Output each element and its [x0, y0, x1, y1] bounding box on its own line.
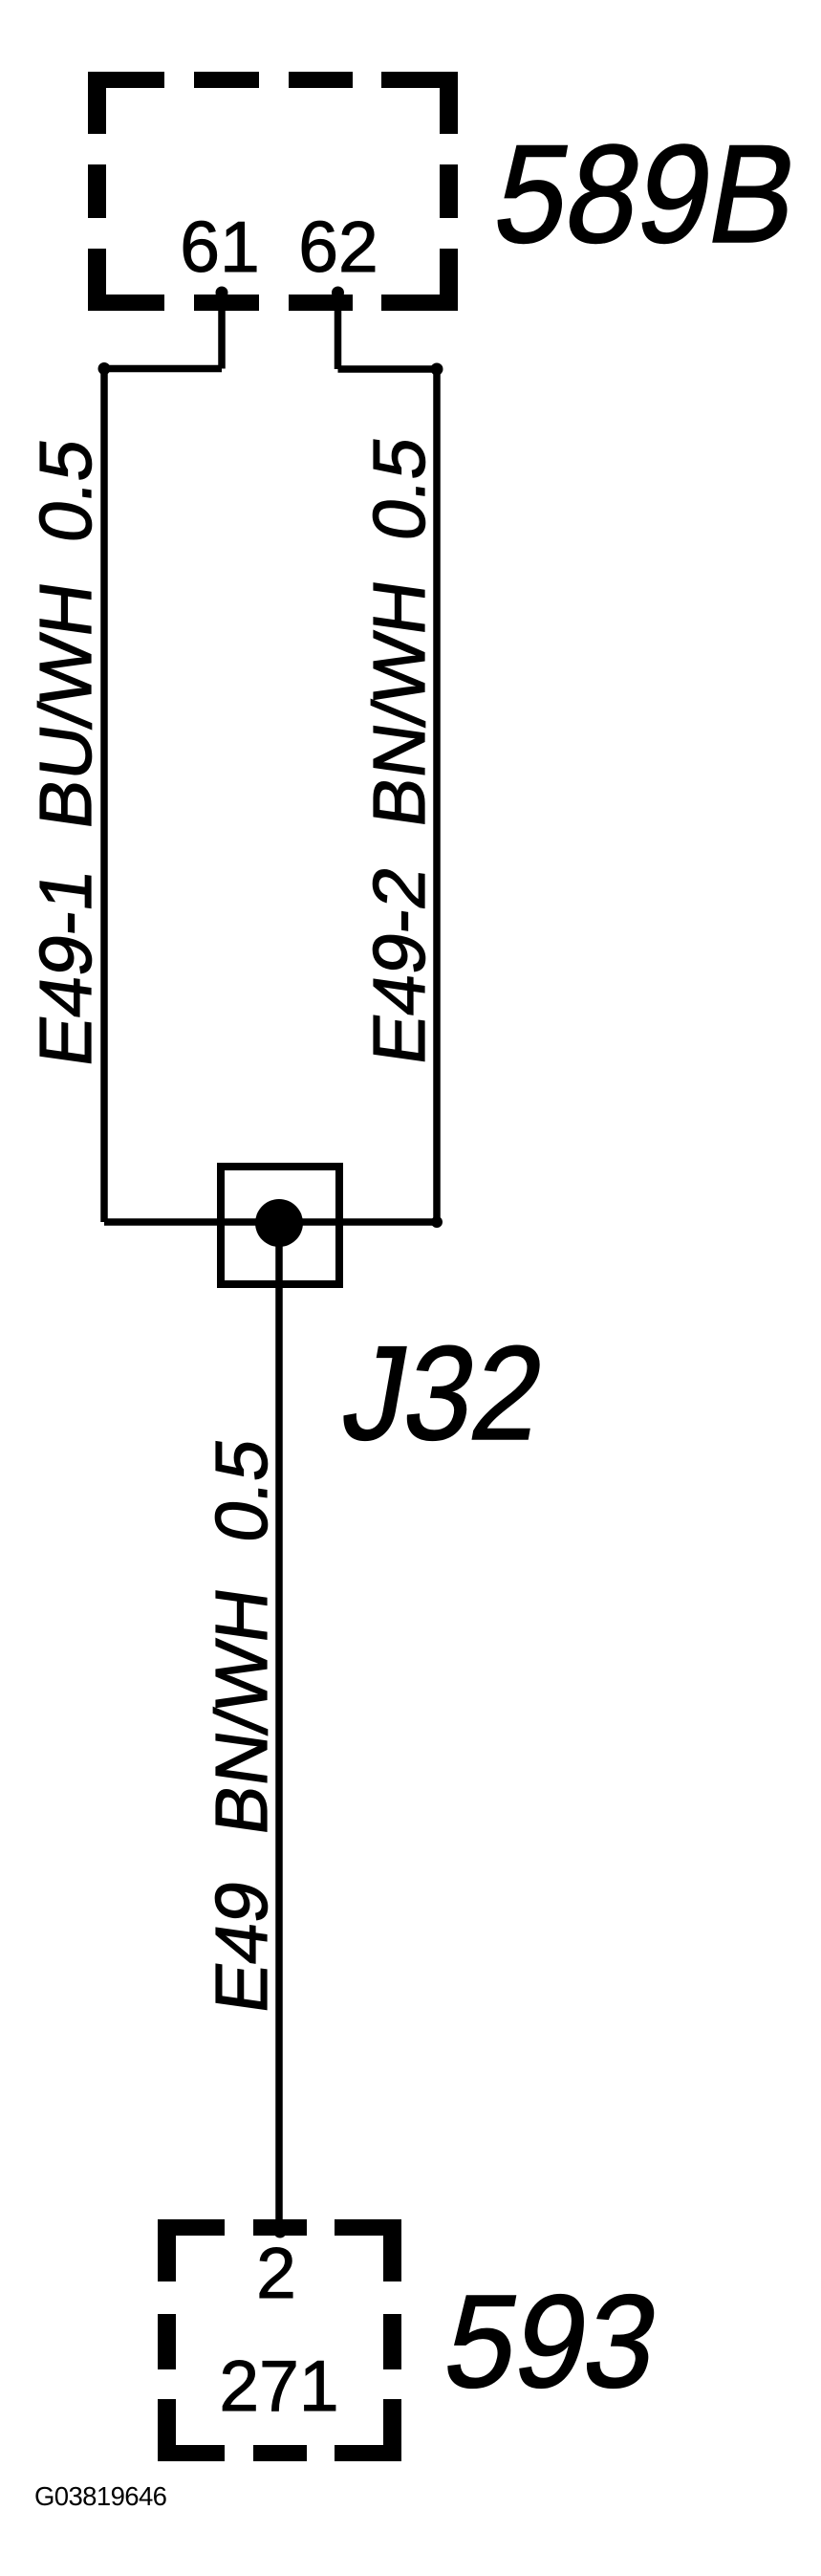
pin 62 connection dot	[332, 287, 344, 299]
wire node to connector 593	[275, 1223, 283, 2235]
splice node box J32	[221, 1167, 339, 1284]
connector 593 connection dot	[274, 2226, 287, 2238]
splice junction dot J32	[255, 1199, 303, 1247]
svg-text:62: 62	[298, 207, 378, 287]
bottom right end dot	[431, 1216, 443, 1228]
connector 593 dashed box	[158, 2219, 401, 2461]
svg-text:E49-1 BU/WH 0.5: E49-1 BU/WH 0.5	[25, 433, 107, 1071]
connector 589B dashed box	[88, 72, 458, 311]
left corner dot	[98, 362, 111, 375]
wire right run to node	[338, 369, 438, 1222]
svg-text:E49-2 BN/WH 0.5: E49-2 BN/WH 0.5	[358, 431, 441, 1069]
wire pin 62 stub	[335, 290, 342, 369]
svg-text:271: 271	[219, 2346, 338, 2426]
svg-text:593: 593	[435, 2267, 671, 2415]
pin 61 connection dot	[216, 287, 228, 299]
wire bottom junction run	[104, 1218, 437, 1226]
svg-text:E49 BN/WH 0.5: E49 BN/WH 0.5	[201, 1433, 283, 2018]
wire pin 61 stub	[218, 290, 226, 369]
svg-text:J32: J32	[334, 1318, 555, 1468]
svg-text:61: 61	[180, 207, 259, 287]
svg-text:589B: 589B	[484, 116, 810, 272]
wire left run to node	[104, 369, 222, 1223]
right corner dot	[431, 363, 443, 376]
svg-text:2: 2	[256, 2233, 296, 2313]
svg-text:G03819646: G03819646	[34, 2481, 167, 2511]
